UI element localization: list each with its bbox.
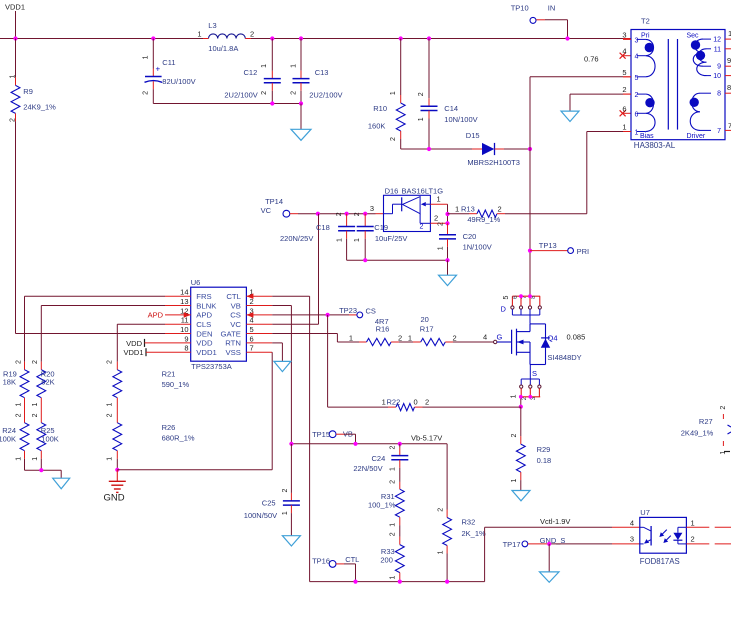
power port VDD1 — [123, 348, 165, 357]
svg-text:6: 6 — [250, 334, 254, 343]
svg-text:TP17: TP17 — [503, 540, 521, 549]
ground T2 pin2 — [561, 111, 579, 121]
svg-text:TP13: TP13 — [539, 241, 557, 250]
svg-text:MBRS2H100T3: MBRS2H100T3 — [467, 158, 520, 167]
svg-text:2K_1%: 2K_1% — [462, 529, 487, 538]
svg-text:R26: R26 — [162, 423, 176, 432]
svg-text:R17: R17 — [420, 325, 434, 334]
svg-text:1: 1 — [510, 394, 517, 398]
svg-text:TP14: TP14 — [265, 197, 283, 206]
svg-text:2: 2 — [142, 91, 149, 95]
svg-text:1: 1 — [15, 457, 22, 461]
junction VB/C24 — [398, 442, 402, 446]
svg-text:2: 2 — [390, 532, 397, 536]
svg-text:R29: R29 — [537, 445, 551, 454]
svg-text:2: 2 — [282, 489, 289, 493]
svg-text:1: 1 — [15, 403, 22, 407]
svg-text:1: 1 — [437, 195, 441, 204]
junction drain rail a — [519, 294, 523, 298]
svg-text:PRI: PRI — [577, 247, 590, 256]
svg-text:VDD1: VDD1 — [196, 348, 217, 357]
svg-text:2: 2 — [9, 118, 16, 122]
junction R25 bottom — [39, 468, 43, 472]
svg-text:R21: R21 — [162, 370, 176, 379]
svg-text:8: 8 — [184, 344, 188, 353]
svg-text:82U/100V: 82U/100V — [162, 77, 195, 86]
ground under C20 rail — [439, 260, 457, 285]
wire BLNK row — [41, 306, 165, 362]
wire T2 pin2 to ground — [570, 94, 631, 111]
resistor R22 — [328, 397, 521, 410]
Q4 source pin group — [510, 365, 541, 407]
svg-text:U7: U7 — [640, 508, 650, 517]
svg-text:2: 2 — [437, 508, 444, 512]
wire VB row — [291, 443, 447, 445]
svg-text:0.18: 0.18 — [537, 456, 552, 465]
svg-text:L3: L3 — [208, 21, 216, 30]
svg-text:VDD: VDD — [126, 339, 142, 348]
svg-text:VDD1: VDD1 — [123, 348, 143, 357]
svg-text:TP16: TP16 — [312, 556, 330, 565]
wire top input bus — [0, 38, 631, 40]
optocoupler U7 FOD817AS — [630, 508, 695, 566]
testpoint TP16 / node CTL — [312, 555, 359, 582]
svg-text:HA3803-AL: HA3803-AL — [634, 141, 676, 150]
junction R26 bottom / GND net — [115, 468, 119, 472]
svg-text:+: + — [156, 65, 161, 74]
junction source rail b — [528, 395, 532, 399]
svg-text:R22: R22 — [387, 398, 401, 407]
svg-text:1: 1 — [197, 29, 201, 38]
testpoint TP17 / node GND_S — [503, 536, 566, 549]
svg-text:2: 2 — [425, 398, 429, 407]
svg-text:2: 2 — [622, 85, 626, 94]
wire FRS row — [25, 296, 166, 362]
svg-text:R32: R32 — [462, 518, 476, 527]
svg-text:100_1%: 100_1% — [368, 501, 396, 510]
svg-text:100N/50V: 100N/50V — [244, 511, 277, 520]
svg-text:2: 2 — [250, 29, 254, 38]
svg-text:VSS: VSS — [226, 348, 241, 357]
svg-text:2: 2 — [32, 360, 39, 364]
svg-text:Driver: Driver — [687, 133, 706, 140]
resistor R33 — [380, 532, 404, 581]
testpoint TP10 / node IN — [511, 4, 568, 39]
svg-text:2: 2 — [261, 91, 268, 95]
svg-text:1: 1 — [691, 518, 695, 527]
svg-text:3: 3 — [635, 37, 639, 44]
resistor R29 — [511, 407, 551, 491]
svg-text:1: 1 — [390, 467, 397, 471]
svg-text:49R9_1%: 49R9_1% — [467, 215, 500, 224]
ground RTN/VSS — [274, 361, 291, 371]
svg-text:RTN: RTN — [225, 339, 241, 348]
capacitor C12 — [224, 36, 280, 103]
svg-text:100K: 100K — [0, 434, 16, 443]
svg-text:4: 4 — [483, 332, 487, 341]
svg-text:C20: C20 — [463, 232, 477, 241]
resistor R19 — [3, 360, 29, 423]
svg-text:2U2/100V: 2U2/100V — [309, 91, 342, 100]
resistor R20 — [32, 360, 55, 423]
svg-text:24K9_1%: 24K9_1% — [23, 103, 56, 112]
transformer T2 HA3803-AL — [631, 17, 725, 151]
capacitor C14 — [418, 36, 477, 149]
junction rail/TP16 — [353, 580, 357, 584]
svg-text:220N/25V: 220N/25V — [280, 234, 313, 243]
wire T2 pin1 to R13 — [505, 132, 631, 214]
svg-text:TPS23753A: TPS23753A — [191, 362, 231, 371]
resistor R25 — [32, 413, 59, 470]
svg-text:6: 6 — [622, 104, 626, 113]
ground under R24/R25 — [53, 478, 70, 489]
wire CLS row — [117, 324, 165, 362]
svg-text:2: 2 — [438, 222, 445, 226]
svg-text:T2: T2 — [641, 17, 650, 26]
svg-text:GND: GND — [104, 493, 125, 504]
junction VDD1/bus — [13, 36, 17, 40]
svg-text:2: 2 — [390, 137, 397, 141]
wire GATE row — [272, 334, 359, 343]
svg-text:C14: C14 — [444, 104, 458, 113]
svg-text:10u/1.8A: 10u/1.8A — [208, 44, 238, 53]
svg-text:D16: D16 — [385, 187, 399, 196]
capacitor C13 — [290, 36, 342, 103]
svg-text:1: 1 — [408, 333, 412, 342]
svg-text:CTL: CTL — [345, 555, 359, 564]
svg-text:0.085: 0.085 — [567, 332, 586, 341]
resistor R16 — [349, 317, 402, 346]
svg-text:CLS: CLS — [196, 320, 211, 329]
junction C14/D15 row — [427, 147, 431, 151]
T2 secondary winding — [691, 39, 711, 76]
svg-text:1: 1 — [142, 55, 149, 59]
junction GND_S — [547, 542, 551, 546]
svg-text:160K: 160K — [368, 121, 386, 130]
svg-text:2: 2 — [15, 413, 22, 417]
junction C19/rail — [363, 258, 367, 262]
svg-text:1: 1 — [635, 130, 639, 137]
svg-text:6: 6 — [513, 295, 519, 299]
svg-text:22N/50V: 22N/50V — [353, 464, 382, 473]
resistor R31 — [368, 480, 404, 537]
svg-text:5: 5 — [503, 295, 510, 299]
junction rail/R32 — [445, 580, 449, 584]
port APD (red) — [148, 311, 191, 320]
svg-text:2: 2 — [290, 91, 297, 95]
svg-text:18K: 18K — [3, 378, 16, 387]
svg-text:VC: VC — [261, 206, 272, 215]
wire VB net (pin2 riser) — [272, 306, 291, 444]
svg-text:D15: D15 — [466, 131, 480, 140]
svg-text:1: 1 — [390, 523, 397, 527]
wire CS row to TP23 — [272, 314, 357, 316]
ground under C13 — [291, 104, 311, 141]
wire primary rail (T2 pin5 down) — [530, 77, 631, 296]
svg-text:C11: C11 — [162, 58, 175, 67]
wire GND_S row — [549, 543, 640, 545]
svg-text:5: 5 — [635, 75, 639, 82]
svg-text:TP15: TP15 — [312, 430, 330, 439]
svg-text:1: 1 — [32, 403, 39, 407]
svg-text:1: 1 — [438, 246, 445, 250]
junction VB/C25 — [289, 442, 293, 446]
svg-text:FRS: FRS — [196, 292, 211, 301]
wire VC riser to pin4 — [272, 214, 318, 325]
svg-text:1: 1 — [290, 64, 297, 68]
svg-text:2: 2 — [390, 445, 397, 449]
junction rail/R33 — [398, 580, 402, 584]
testpoint TP15 / node VB — [312, 430, 355, 444]
svg-text:R9: R9 — [23, 87, 33, 96]
svg-text:2: 2 — [635, 92, 639, 99]
svg-text:13: 13 — [180, 297, 188, 306]
svg-text:1: 1 — [106, 457, 113, 461]
wire D16 pin1 riser — [447, 204, 449, 223]
svg-text:C25: C25 — [262, 499, 276, 508]
svg-text:14: 14 — [180, 288, 188, 297]
svg-text:GATE: GATE — [221, 329, 241, 338]
svg-text:S: S — [532, 369, 537, 378]
svg-text:FOD817AS: FOD817AS — [640, 557, 680, 566]
testpoint TP13 / node PRI — [528, 241, 589, 256]
capacitor C11 (polarized) — [142, 36, 195, 103]
resistor R17 — [399, 315, 494, 346]
svg-text:R16: R16 — [376, 325, 390, 334]
svg-text:SI4848DY: SI4848DY — [548, 353, 582, 362]
svg-text:6: 6 — [635, 111, 639, 118]
svg-text:Pri: Pri — [641, 33, 650, 40]
transistor Q4 SI4848DY drain pin group — [501, 295, 542, 324]
U6 pin names and numbers — [180, 288, 254, 357]
svg-text:2: 2 — [511, 433, 518, 437]
U7 phototransistor — [640, 526, 651, 546]
svg-text:10: 10 — [180, 325, 188, 334]
svg-text:TP23: TP23 — [339, 306, 357, 315]
junction source rail a — [519, 395, 523, 399]
svg-text:R10: R10 — [373, 104, 387, 113]
ground under C25 — [282, 536, 300, 546]
svg-text:100K: 100K — [41, 434, 59, 443]
wire VSS down to GND row — [271, 352, 273, 470]
T2 left pin numbers inside — [635, 37, 639, 136]
junction D15/primary rail — [528, 147, 532, 151]
junction drain rail b — [528, 294, 532, 298]
T2 driver winding — [690, 93, 712, 130]
svg-text:2: 2 — [691, 535, 695, 544]
svg-text:2: 2 — [336, 212, 343, 216]
svg-text:7: 7 — [717, 128, 721, 135]
U6 left pin stubs — [165, 296, 191, 352]
junction C13/rail — [299, 101, 303, 105]
svg-text:2: 2 — [420, 223, 424, 230]
testpoint TP23 / node CS — [339, 306, 376, 318]
U7 LED — [673, 527, 686, 544]
clipped mark right edge — [724, 451, 730, 453]
svg-text:3: 3 — [622, 30, 626, 39]
wire DEN row — [16, 333, 166, 335]
svg-text:1N/100V: 1N/100V — [463, 243, 492, 252]
svg-text:TP10: TP10 — [511, 4, 529, 13]
T2 pin stubs right — [725, 39, 731, 130]
svg-text:2: 2 — [390, 480, 397, 484]
capacitor C20 — [438, 222, 492, 260]
svg-text:62K: 62K — [41, 378, 54, 387]
svg-text:2K49_1%: 2K49_1% — [681, 429, 714, 438]
junction VC riser — [316, 212, 320, 216]
wire bottom rail — [310, 581, 485, 583]
svg-text:7: 7 — [250, 344, 254, 353]
diode D15 — [466, 131, 530, 167]
junction C12/rail — [270, 101, 274, 105]
wire CS to R22 — [327, 315, 329, 407]
junction D16 pin2 / C20 — [445, 221, 449, 225]
svg-text:APD: APD — [196, 311, 212, 320]
transistor Q4 MOSFET symbol — [483, 324, 585, 365]
svg-text:4: 4 — [622, 47, 626, 56]
svg-text:1: 1 — [437, 550, 444, 554]
resistor R10 — [368, 36, 405, 149]
svg-text:BLNK: BLNK — [196, 301, 217, 310]
svg-text:1: 1 — [455, 204, 459, 213]
svg-text:1: 1 — [390, 575, 397, 579]
power port VDD — [126, 339, 165, 348]
wire filter ground rail — [153, 103, 301, 105]
capacitor C18 — [280, 212, 355, 261]
wire VC row — [318, 213, 384, 215]
resistor R24 — [0, 413, 29, 470]
T2 bias winding — [637, 94, 655, 131]
wire D15 row — [401, 148, 472, 150]
resistor R21 — [106, 360, 189, 423]
svg-text:C24: C24 — [372, 454, 386, 463]
svg-text:VB: VB — [231, 301, 241, 310]
svg-text:1: 1 — [261, 64, 268, 68]
svg-text:1: 1 — [32, 457, 39, 461]
ground GND (earth symbol) — [104, 470, 126, 504]
svg-text:R13: R13 — [461, 204, 475, 213]
junction TP10/bus — [565, 36, 569, 40]
svg-text:2: 2 — [453, 333, 457, 342]
svg-text:8: 8 — [727, 83, 731, 92]
junction R13/D16 — [445, 212, 449, 216]
svg-text:12: 12 — [713, 37, 721, 44]
clipped off-page pin numbers right edge — [727, 29, 731, 130]
svg-text:CS: CS — [366, 307, 376, 316]
no-connect X pin4 T2 — [620, 53, 631, 59]
wire R24/R25 bottom to ground — [25, 470, 62, 478]
inductor L3 — [197, 21, 254, 53]
svg-text:4: 4 — [635, 54, 639, 61]
capacitor C19 — [354, 212, 407, 261]
input arrow CTL pin1 — [246, 293, 253, 299]
svg-text:IN: IN — [548, 4, 556, 13]
junction R22/R29 node — [519, 405, 523, 409]
junction VB/TP15 — [353, 442, 357, 446]
T2 right pin numbers inside — [713, 37, 721, 135]
svg-text:R27: R27 — [699, 417, 713, 426]
op-amp/controller U6 TPS23753A — [191, 278, 247, 371]
svg-text:11: 11 — [714, 46, 721, 53]
svg-text:9: 9 — [727, 56, 731, 65]
svg-text:2: 2 — [498, 205, 502, 214]
svg-text:3: 3 — [370, 204, 374, 213]
svg-text:0: 0 — [414, 397, 418, 406]
ground under R29 — [512, 491, 530, 501]
svg-text:2: 2 — [32, 413, 39, 417]
svg-text:1: 1 — [354, 238, 361, 242]
svg-text:0.76: 0.76 — [584, 54, 599, 63]
svg-text:2: 2 — [15, 360, 22, 364]
svg-text:2U2/100V: 2U2/100V — [224, 91, 257, 100]
capacitor C25 — [244, 444, 300, 536]
svg-text:9: 9 — [184, 334, 188, 343]
svg-text:2: 2 — [434, 214, 438, 223]
svg-text:C19: C19 — [374, 223, 388, 232]
svg-text:1: 1 — [282, 511, 289, 515]
svg-text:10: 10 — [713, 73, 721, 80]
no-connect X pin6 T2 — [620, 110, 631, 116]
svg-text:5: 5 — [250, 325, 254, 334]
junction C20/rail — [445, 258, 449, 262]
svg-text:1: 1 — [349, 333, 353, 342]
svg-text:2: 2 — [106, 413, 113, 417]
svg-text:8: 8 — [717, 91, 721, 98]
svg-text:CS: CS — [230, 311, 241, 320]
wire CTL net (pin1 to bottom rail) — [272, 296, 309, 581]
svg-text:2: 2 — [106, 360, 113, 364]
svg-text:R33: R33 — [381, 547, 395, 556]
svg-text:1: 1 — [336, 238, 343, 242]
svg-text:VDD: VDD — [196, 339, 213, 348]
svg-text:Sec: Sec — [687, 33, 700, 40]
svg-text:10N/100V: 10N/100V — [444, 115, 477, 124]
svg-text:VDD1: VDD1 — [5, 3, 25, 12]
svg-text:1: 1 — [622, 123, 626, 132]
svg-text:590_1%: 590_1% — [162, 380, 190, 389]
svg-text:4: 4 — [630, 518, 634, 527]
resistor R27 (off-page, labels only) — [681, 406, 731, 455]
svg-text:10uF/25V: 10uF/25V — [375, 234, 408, 243]
svg-text:680R_1%: 680R_1% — [162, 433, 195, 442]
svg-text:1: 1 — [390, 91, 397, 95]
U6 right pin stubs — [246, 296, 272, 352]
svg-text:1: 1 — [418, 117, 425, 121]
resistor R26 — [106, 413, 195, 469]
wire Vctl row — [485, 526, 640, 528]
svg-text:1: 1 — [382, 398, 386, 407]
svg-text:2: 2 — [418, 92, 425, 96]
resistor R32 — [437, 444, 486, 582]
svg-text:Vctl-1.9V: Vctl-1.9V — [540, 517, 570, 526]
wire C18/C19/C20 ground rail — [347, 259, 448, 261]
svg-text:D: D — [501, 305, 507, 314]
svg-text:G: G — [497, 332, 503, 341]
svg-text:Vb-5.17V: Vb-5.17V — [411, 434, 442, 443]
node VDD1 — [5, 3, 25, 39]
svg-text:DEN: DEN — [196, 329, 212, 338]
svg-text:APD: APD — [148, 311, 164, 320]
svg-text:20: 20 — [421, 315, 429, 324]
svg-text:U6: U6 — [191, 278, 201, 287]
wire GND_S to ground — [548, 544, 550, 572]
svg-text:200: 200 — [380, 556, 393, 565]
svg-text:3: 3 — [630, 535, 634, 544]
wire VSS to GND row — [117, 469, 272, 471]
junction CS/TP23 — [326, 313, 330, 317]
svg-text:1: 1 — [511, 478, 518, 482]
wire U7 pin2 out — [686, 543, 731, 545]
